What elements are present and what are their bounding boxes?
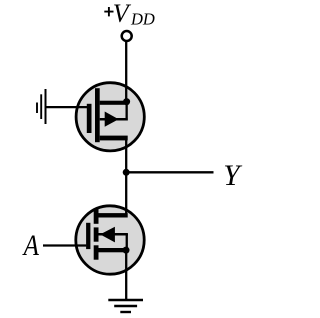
Q2 top drain stub	[99, 213, 128, 217]
Q2 bottom source stub	[99, 248, 128, 252]
Q2 channel segment top	[94, 209, 99, 224]
Q2 channel segment bottom	[94, 245, 99, 259]
wire node to Y	[126, 171, 213, 173]
Q1 substrate arrow	[105, 112, 119, 127]
Q1 bottom drain stub	[100, 136, 128, 141]
junction dot Q2 body-source	[123, 247, 130, 254]
VDD terminal circle	[122, 31, 132, 41]
junction dot Q1 body-source	[123, 98, 130, 105]
svg-text:V: V	[113, 0, 132, 28]
Q2 channel segment middle	[94, 227, 99, 241]
svg-text:DD: DD	[130, 9, 155, 28]
wire Q1 drain to output node	[125, 138, 127, 172]
wire gate ground to Q1 gate	[46, 106, 88, 108]
Q1 top source stub	[100, 101, 128, 105]
wire Q2 source to ground	[125, 250, 127, 300]
Q2 body-source connector	[126, 234, 128, 250]
Q2 gate bar	[86, 223, 90, 249]
Q2 substrate line	[99, 233, 128, 236]
svg-text:A: A	[22, 229, 40, 262]
ground symbol bottom	[108, 300, 143, 312]
output node dot	[123, 169, 130, 176]
Q1 body-source connector	[126, 101, 128, 120]
Q1 substrate line	[100, 118, 128, 121]
node +VDD label	[104, 0, 155, 28]
wire node to Q2 drain	[125, 172, 127, 216]
Q1 gate bar	[87, 104, 92, 133]
Q1 channel bar	[95, 88, 100, 142]
wire VDD to Q1 source	[125, 41, 127, 103]
transistor Q2 (n-channel enhancement) body circle	[76, 206, 144, 274]
svg-text:Y: Y	[223, 160, 243, 192]
Q2 substrate arrow	[100, 227, 115, 243]
transistor Q1 (depletion load) body circle	[76, 83, 144, 151]
wire A to Q2 gate	[43, 244, 86, 246]
ground symbol at Q1 gate (rotated)	[37, 89, 46, 124]
